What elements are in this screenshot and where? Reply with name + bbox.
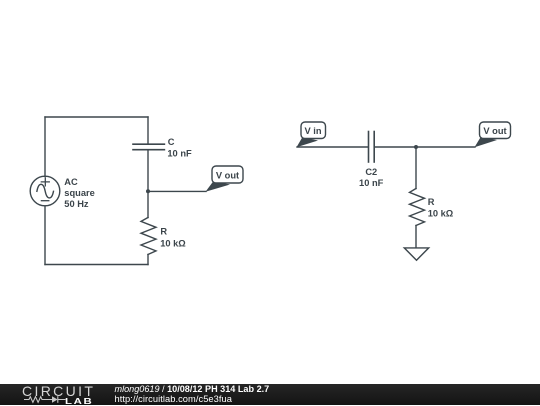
svg-text:10 kΩ: 10 kΩ [160,239,186,249]
svg-text:R: R [160,226,167,236]
svg-text:V out: V out [483,126,506,136]
svg-text:AC: AC [64,177,78,187]
svg-text:50 Hz: 50 Hz [64,199,89,209]
svg-text:10 nF: 10 nF [359,178,384,188]
svg-text:V out: V out [216,171,239,181]
svg-text:C: C [168,137,175,147]
svg-text:V in: V in [304,126,321,136]
svg-text:10 kΩ: 10 kΩ [428,209,454,219]
svg-text:R: R [428,197,435,207]
svg-text:C2: C2 [365,167,377,177]
svg-text:square: square [64,188,95,198]
svg-text:10 nF: 10 nF [167,149,192,159]
